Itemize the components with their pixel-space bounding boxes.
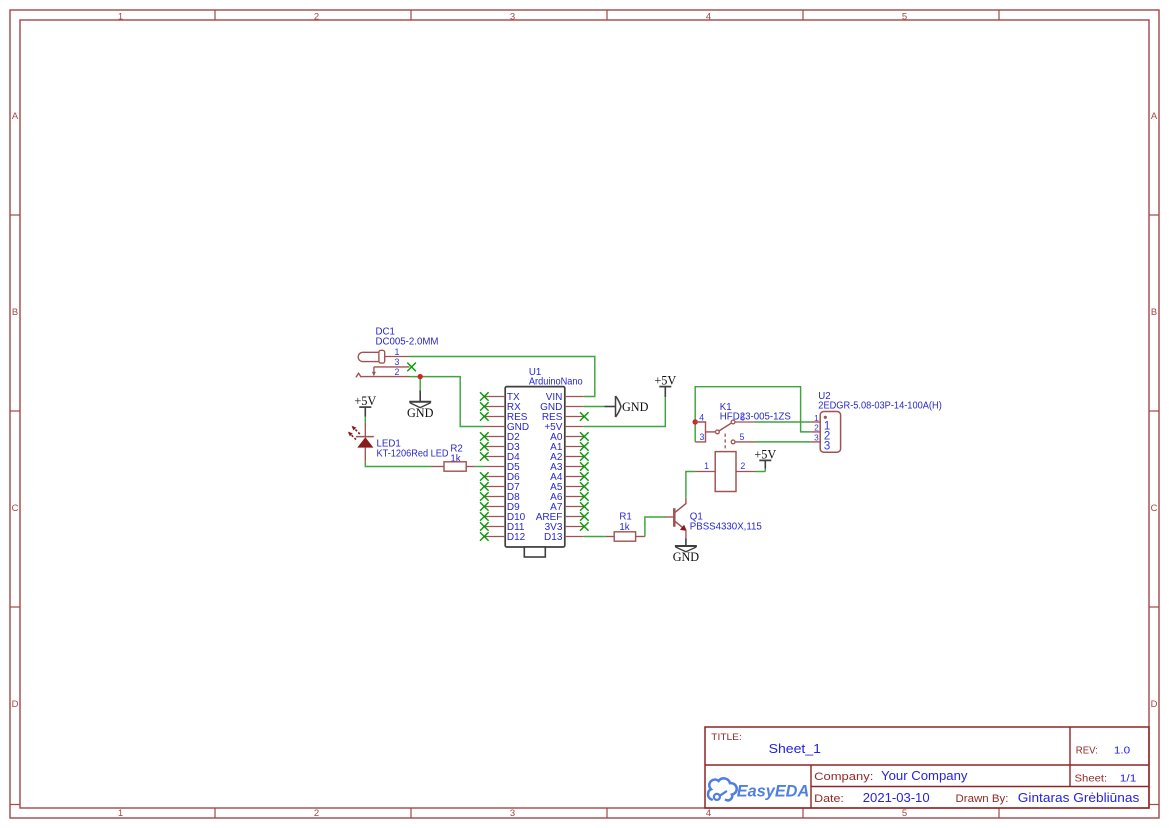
svg-text:GND: GND bbox=[622, 400, 649, 414]
svg-text:D13: D13 bbox=[544, 532, 563, 543]
svg-text:3: 3 bbox=[814, 433, 819, 443]
svg-text:A: A bbox=[12, 110, 19, 121]
svg-text:ArduinoNano: ArduinoNano bbox=[529, 377, 583, 388]
svg-text:3: 3 bbox=[824, 441, 830, 453]
svg-text:C: C bbox=[12, 502, 19, 513]
svg-text:1: 1 bbox=[118, 808, 123, 819]
svg-text:A: A bbox=[1151, 110, 1158, 121]
svg-text:B: B bbox=[12, 306, 18, 317]
svg-text:3: 3 bbox=[700, 432, 705, 442]
svg-text:B: B bbox=[1151, 306, 1157, 317]
svg-text:+5V: +5V bbox=[354, 394, 376, 408]
svg-text:GND: GND bbox=[673, 550, 700, 564]
svg-text:5: 5 bbox=[739, 432, 744, 442]
svg-text:TITLE:: TITLE: bbox=[711, 732, 742, 742]
svg-text:1/1: 1/1 bbox=[1120, 773, 1137, 785]
svg-text:3: 3 bbox=[395, 357, 400, 367]
svg-text:Company:: Company: bbox=[814, 771, 873, 783]
svg-text:Date:: Date: bbox=[814, 793, 844, 805]
svg-text:1: 1 bbox=[704, 461, 709, 471]
svg-text:PBSS4330X,115: PBSS4330X,115 bbox=[690, 522, 762, 533]
svg-text:2: 2 bbox=[395, 367, 400, 377]
svg-text:1: 1 bbox=[395, 347, 400, 357]
svg-text:4: 4 bbox=[706, 11, 711, 22]
svg-text:2EDGR-5.08-03P-14-100A(H): 2EDGR-5.08-03P-14-100A(H) bbox=[818, 401, 942, 412]
svg-text:5: 5 bbox=[902, 11, 907, 22]
svg-text:6: 6 bbox=[740, 412, 745, 422]
svg-text:Gintaras Grėbliūnas: Gintaras Grėbliūnas bbox=[1018, 791, 1140, 805]
svg-text:1: 1 bbox=[814, 413, 819, 423]
svg-text:1.0: 1.0 bbox=[1114, 745, 1130, 757]
svg-text:1: 1 bbox=[118, 11, 123, 22]
svg-text:C: C bbox=[1151, 502, 1158, 513]
svg-text:EasyEDA: EasyEDA bbox=[737, 782, 809, 800]
svg-text:Sheet_1: Sheet_1 bbox=[769, 742, 821, 756]
svg-text:DC005-2.0MM: DC005-2.0MM bbox=[376, 337, 439, 348]
svg-text:+5V: +5V bbox=[754, 447, 776, 461]
svg-text:4: 4 bbox=[706, 808, 711, 819]
svg-text:KT-1206Red LED: KT-1206Red LED bbox=[377, 449, 449, 460]
svg-text:+5V: +5V bbox=[654, 374, 676, 388]
svg-text:Sheet:: Sheet: bbox=[1075, 773, 1108, 785]
svg-text:3: 3 bbox=[510, 808, 515, 819]
svg-text:3: 3 bbox=[510, 11, 515, 22]
svg-text:Drawn By:: Drawn By: bbox=[956, 793, 1009, 805]
svg-text:GND: GND bbox=[407, 406, 434, 420]
svg-text:4: 4 bbox=[699, 412, 704, 422]
svg-text:5: 5 bbox=[902, 808, 907, 819]
svg-text:D: D bbox=[12, 698, 19, 709]
svg-text:Your Company: Your Company bbox=[881, 769, 968, 783]
svg-text:D12: D12 bbox=[507, 532, 526, 543]
svg-text:2: 2 bbox=[314, 808, 319, 819]
svg-text:REV:: REV: bbox=[1076, 745, 1098, 757]
svg-text:2: 2 bbox=[814, 423, 819, 433]
svg-text:HFD23-005-1ZS: HFD23-005-1ZS bbox=[720, 412, 792, 423]
svg-text:2: 2 bbox=[740, 461, 745, 471]
svg-text:2: 2 bbox=[314, 11, 319, 22]
svg-text:D: D bbox=[1151, 698, 1158, 709]
svg-text:2021-03-10: 2021-03-10 bbox=[863, 791, 930, 805]
